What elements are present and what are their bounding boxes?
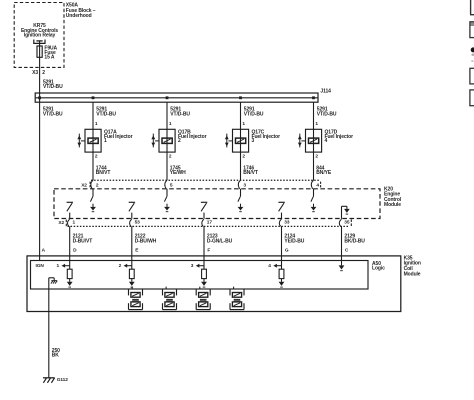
svg-text:3: 3 [252, 138, 255, 144]
svg-text:F: F [207, 247, 210, 253]
svg-text:1: 1 [95, 121, 98, 127]
svg-text:4: 4 [268, 263, 271, 269]
svg-text:BK: BK [52, 353, 60, 359]
svg-text:YE/D-BU: YE/D-BU [284, 238, 304, 244]
svg-text:BN/VT: BN/VT [243, 170, 258, 176]
svg-text:17: 17 [207, 220, 213, 226]
svg-text:IGN: IGN [36, 263, 45, 269]
svg-text:Logic: Logic [372, 266, 385, 272]
svg-text:G: G [285, 247, 289, 253]
svg-text:4: 4 [316, 183, 319, 189]
svg-text:3: 3 [243, 183, 246, 189]
svg-text:Module: Module [404, 271, 421, 277]
svg-text:E: E [135, 247, 139, 253]
svg-text:Fuel Injector: Fuel Injector [325, 134, 354, 140]
svg-text:D-GN/L-BU: D-GN/L-BU [207, 238, 233, 244]
svg-text:Module: Module [384, 202, 401, 208]
svg-text:35: 35 [344, 220, 350, 226]
svg-text:X3: X3 [32, 70, 38, 76]
svg-text:4: 4 [325, 138, 328, 144]
svg-text:1: 1 [242, 121, 245, 127]
svg-text:Fuel Injector: Fuel Injector [178, 134, 207, 140]
svg-text:2: 2 [242, 153, 245, 159]
svg-text:Fuel Injector: Fuel Injector [252, 134, 281, 140]
svg-text:Ignition Relay: Ignition Relay [24, 33, 56, 39]
svg-text:D-BU/VT: D-BU/VT [73, 238, 93, 244]
svg-text:1: 1 [104, 138, 107, 144]
svg-text:D: D [73, 247, 77, 253]
svg-text:33: 33 [284, 220, 290, 226]
svg-text:2: 2 [42, 70, 45, 76]
svg-text:VT/D-BU: VT/D-BU [317, 111, 337, 117]
svg-text:C: C [345, 247, 349, 253]
svg-text:BN/VT: BN/VT [96, 170, 111, 176]
svg-text:YE/WH: YE/WH [170, 170, 186, 176]
svg-text:15 A: 15 A [44, 55, 54, 61]
svg-text:VT/D-BU: VT/D-BU [96, 111, 116, 117]
svg-text:X2: X2 [81, 183, 87, 189]
svg-text:2: 2 [169, 153, 172, 159]
svg-text:Underhood: Underhood [66, 13, 92, 19]
svg-text:1: 1 [57, 263, 60, 269]
svg-text:VT/D-BU: VT/D-BU [244, 111, 264, 117]
svg-text:2: 2 [119, 263, 122, 269]
svg-text:2: 2 [96, 183, 99, 189]
svg-text:5: 5 [170, 183, 173, 189]
svg-text:VT/D-BU: VT/D-BU [170, 111, 190, 117]
svg-text:G112: G112 [57, 377, 69, 383]
svg-text:2: 2 [95, 153, 98, 159]
svg-text:VT/D-BU: VT/D-BU [43, 84, 63, 90]
svg-text:3: 3 [191, 263, 194, 269]
svg-text:BK/D-BU: BK/D-BU [344, 238, 365, 244]
svg-text:1: 1 [315, 121, 318, 127]
svg-text:Fuel Injector: Fuel Injector [104, 134, 133, 140]
svg-text:2: 2 [178, 138, 181, 144]
svg-text:2: 2 [315, 153, 318, 159]
svg-text:VT/D-BU: VT/D-BU [43, 111, 63, 117]
svg-text:53: 53 [135, 220, 141, 226]
svg-text:BN/YE: BN/YE [316, 170, 332, 176]
svg-text:A: A [42, 247, 46, 253]
svg-text:X2: X2 [58, 220, 64, 226]
svg-text:1: 1 [73, 220, 76, 226]
svg-text:1: 1 [169, 121, 172, 127]
svg-text:J114: J114 [320, 89, 331, 95]
svg-text:D-BU/WH: D-BU/WH [135, 238, 157, 244]
